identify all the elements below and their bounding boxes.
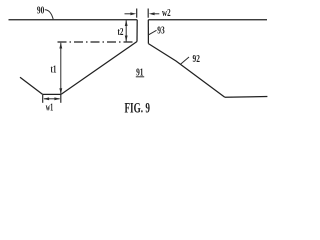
w1 left extension tick bbox=[42, 95, 44, 103]
w1 right extension tick bbox=[60, 95, 62, 103]
leader line for 90 bbox=[45, 10, 53, 19]
w2 right outside arrow bbox=[149, 12, 155, 15]
w2 left extension tick bbox=[136, 9, 138, 18]
svg-text:t2: t2 bbox=[118, 27, 124, 38]
right flared pit wall 92 bbox=[148, 44, 224, 98]
bottom surface right segment bbox=[225, 96, 268, 99]
left flared pit wall bbox=[61, 42, 137, 95]
pit flat bottom bbox=[43, 93, 61, 95]
svg-text:t1: t1 bbox=[51, 65, 57, 76]
w1 double-headed arrow bbox=[44, 98, 60, 100]
svg-text:w2: w2 bbox=[162, 8, 171, 19]
svg-text:w1: w1 bbox=[46, 102, 54, 113]
dimension w1 bbox=[43, 95, 61, 114]
dash-dot reference level line bbox=[58, 41, 135, 43]
t2 down arrowhead bbox=[125, 36, 128, 42]
left upper pit wall bbox=[20, 77, 43, 94]
leader line for 92 bbox=[181, 57, 190, 64]
surface line 90 left segment bbox=[9, 19, 138, 21]
svg-text:90: 90 bbox=[37, 6, 44, 17]
label 91 underlined bbox=[136, 67, 144, 78]
t1 dimension line bbox=[60, 43, 62, 94]
t1 up arrowhead bbox=[59, 43, 62, 49]
t2 up arrowhead bbox=[125, 20, 128, 26]
dimension t2 bbox=[118, 20, 128, 42]
w2 right extension tick bbox=[147, 9, 149, 18]
t1 down arrowhead bbox=[59, 88, 62, 94]
svg-text:FIG. 9: FIG. 9 bbox=[124, 101, 150, 117]
dimension w2 bbox=[125, 8, 171, 19]
surface line 90 right segment bbox=[148, 19, 267, 21]
w2 left outside arrow bbox=[125, 13, 132, 15]
groove neck right wall 93 bbox=[147, 20, 149, 44]
dimension t1 bbox=[51, 43, 63, 95]
svg-text:92: 92 bbox=[193, 54, 200, 65]
groove neck left wall bbox=[136, 20, 138, 42]
t2 dimension line bbox=[125, 20, 127, 41]
leader line for 93 bbox=[149, 30, 157, 35]
svg-text:93: 93 bbox=[157, 26, 164, 37]
